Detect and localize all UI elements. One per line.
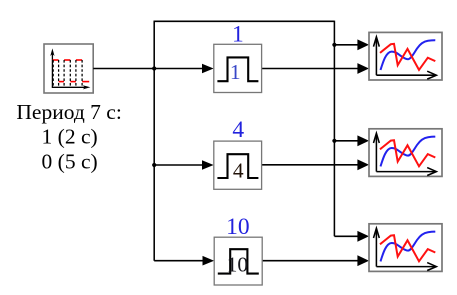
svg-text:10: 10 — [226, 214, 250, 240]
scope block 1 — [369, 32, 442, 80]
wire: top horizontal y=21.3 — [154, 20, 335, 22]
wire: right vertical x=334.4 — [333, 21, 335, 237]
wire: vertical trunk at x=154 — [153, 21, 155, 260]
wire: block4 output to scope2 second input — [262, 164, 358, 166]
delay block 1 — [214, 44, 262, 92]
annotation text under source block — [16, 100, 121, 173]
svg-text:4: 4 — [232, 117, 244, 143]
wire: trunk junction to delay block 4 — [154, 164, 203, 166]
red low segments of pulse waveform — [59, 81, 90, 83]
scope block 2 — [369, 129, 442, 177]
svg-text:1 (2 с): 1 (2 с) — [42, 125, 98, 149]
junction node at (154,68.5) — [152, 66, 156, 70]
scope1 x-axis — [376, 74, 435, 76]
svg-text:10: 10 — [227, 253, 249, 277]
svg-text:1: 1 — [232, 21, 244, 47]
wire: right vertical corner to scope3 first input — [334, 235, 358, 237]
x-axis of pulse icon — [52, 86, 87, 88]
wire: source output to junction and delay block 1 — [93, 68, 203, 70]
scope1 y-axis — [375, 37, 377, 75]
scope1 red trace — [380, 44, 435, 70]
wire: junction to scope2 first input — [334, 140, 358, 142]
y-axis of pulse icon — [51, 52, 53, 88]
junction node at (334.4,44.8) — [332, 43, 336, 47]
svg-text:4: 4 — [233, 158, 244, 182]
junction node at (154,165) — [152, 163, 156, 167]
scope1 blue trace — [381, 40, 436, 70]
delay block 4 — [214, 141, 262, 189]
black dashed transition verticals — [53, 60, 82, 87]
wire: block1 output to scope1 second input — [262, 68, 358, 70]
junction node at (334.4,140.8) — [332, 139, 336, 143]
wire: trunk corner to delay block 10 — [154, 260, 203, 262]
svg-text:1: 1 — [230, 60, 241, 84]
pulse generator block (source) — [44, 44, 93, 93]
arrowhead into block 1 — [202, 64, 214, 74]
scope block 3 — [369, 224, 442, 272]
svg-text:Период 7 с:: Период 7 с: — [16, 100, 121, 124]
red high segments of pulse waveform — [53, 59, 83, 61]
delay block 10 — [214, 237, 262, 285]
wire: block10 output to scope3 second input — [262, 260, 358, 262]
wire: junction to scope1 first input — [334, 44, 358, 46]
svg-text:0 (5 с): 0 (5 с) — [42, 149, 98, 173]
